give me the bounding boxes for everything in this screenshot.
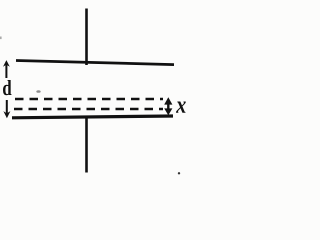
capacitor top plate [16, 61, 174, 65]
label x (displacement) [176, 101, 186, 112]
dimension arrow x: double-headed vertical between dashed line and bottom plate [164, 97, 172, 115]
dimension arrow down (bottom of gap d) [3, 100, 10, 118]
wire: bottom lead of capacitor [85, 117, 88, 173]
stray scan dot lower right [178, 172, 180, 174]
stray scan smudge near label d [36, 90, 40, 93]
wire: top lead of capacitor [85, 9, 88, 66]
label d (plate separation) [3, 80, 12, 95]
capacitor bottom plate [12, 116, 173, 118]
dimension arrow up (top of gap d) [3, 60, 10, 78]
dashed line 1: displaced plate position (top edge) [15, 98, 163, 100]
stray scan mark at left edge [0, 37, 2, 40]
dashed line 2: displaced plate position (bottom edge) [14, 108, 163, 110]
